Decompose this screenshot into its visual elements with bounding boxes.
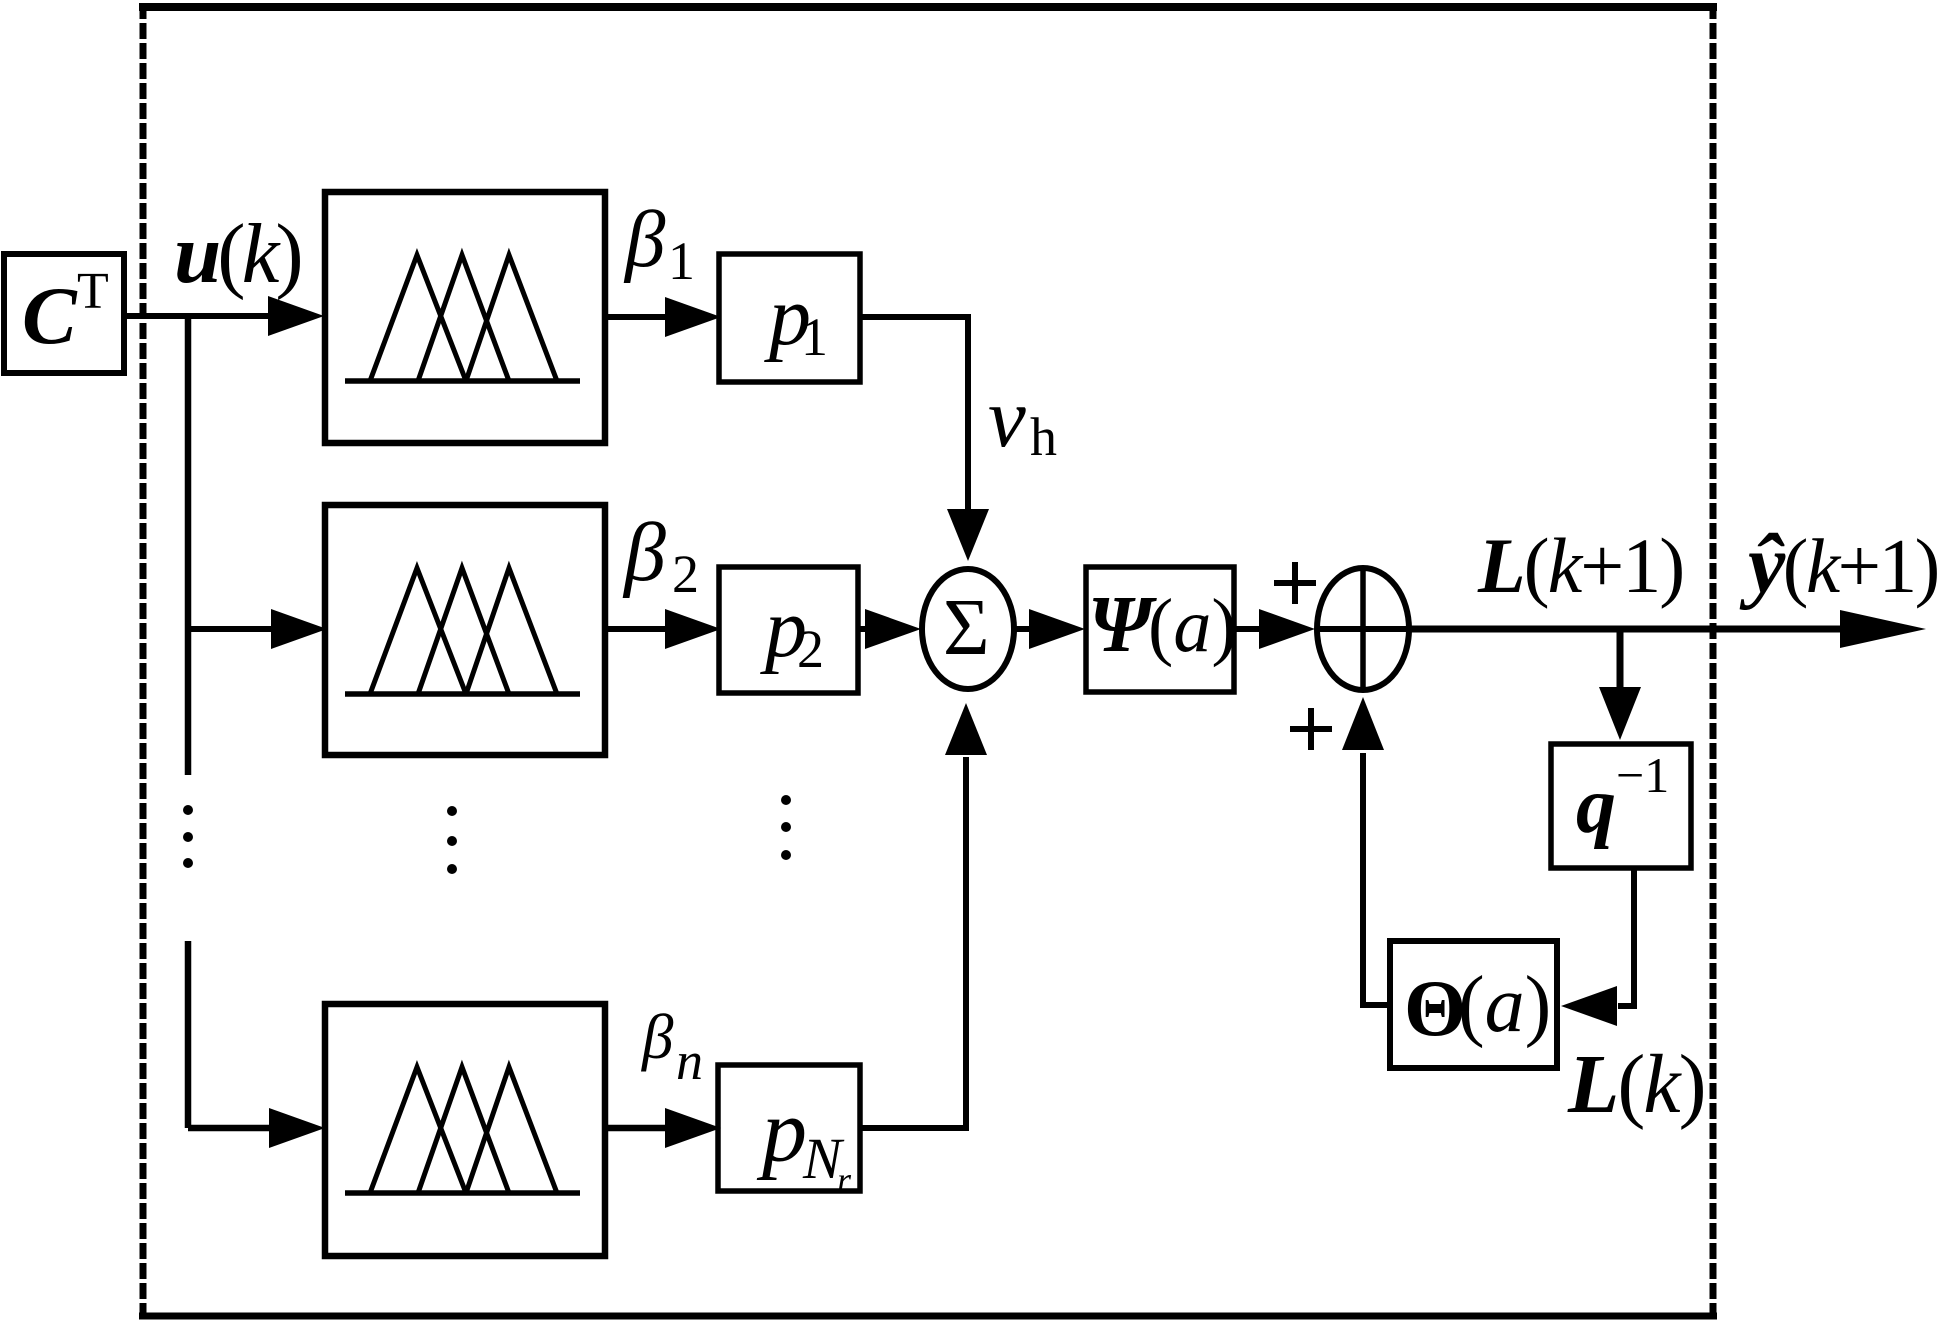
adder circle with cross <box>1316 566 1410 692</box>
svg-text:2: 2 <box>672 544 699 604</box>
wire fuzzifier3 to pNr <box>605 1125 668 1132</box>
wire u(k) branch vertical upper <box>185 316 192 775</box>
wire row2 branch to fuzzifier2 <box>188 626 274 632</box>
svg-text:(a): (a) <box>1148 584 1237 668</box>
node vertical ellipsis right <box>781 795 791 805</box>
svg-text:ŷ(k+1): ŷ(k+1) <box>1739 518 1938 611</box>
svg-text:1: 1 <box>668 231 695 291</box>
block Theta(a) <box>1390 941 1557 1068</box>
fuzzifier block 3 <box>325 1004 605 1256</box>
wire row3 branch to fuzzifier3 <box>188 1125 272 1132</box>
wire fuzzifier2 to p2 <box>605 626 668 632</box>
svg-text:L(k): L(k) <box>1567 1038 1705 1131</box>
svg-text:p: p <box>756 1082 807 1181</box>
node vertical ellipsis middle <box>447 806 457 816</box>
wire Theta to adder bottom <box>1363 753 1390 1005</box>
dashed frame right border <box>1710 3 1717 1320</box>
svg-text:q: q <box>1576 762 1616 850</box>
wire fuzzifier1 to p1 <box>605 314 668 320</box>
svg-text:n: n <box>676 1031 703 1091</box>
svg-text:h: h <box>1030 407 1057 467</box>
wire adder to output <box>1409 626 1843 633</box>
svg-text:1: 1 <box>801 307 828 367</box>
svg-text:Ψ: Ψ <box>1088 581 1157 669</box>
svg-text:u(k): u(k) <box>174 207 300 301</box>
dashed frame top border <box>139 3 1717 11</box>
wire p1 to sum (v_h) <box>860 317 968 512</box>
wire pNr up to sum bottom <box>860 757 966 1128</box>
node plus sign lower <box>1290 708 1332 750</box>
fuzzifier block 2 <box>325 505 605 755</box>
dashed frame bottom border <box>139 1313 1717 1320</box>
svg-text:Θ: Θ <box>1404 965 1466 1053</box>
summation node Sigma <box>922 569 1014 689</box>
wire sum to Psi <box>1014 626 1032 632</box>
block pNr <box>718 1065 860 1191</box>
svg-text:−1: −1 <box>1616 747 1669 803</box>
block p1 <box>719 254 860 382</box>
wire u(k) branch vertical lower <box>185 941 192 1128</box>
wire p2 to sum <box>858 626 868 632</box>
svg-text:β: β <box>623 194 666 284</box>
svg-text:2: 2 <box>797 619 824 679</box>
block Psi(a) <box>1086 567 1234 692</box>
node vertical ellipsis left <box>183 805 193 815</box>
wire C^T to fuzzifier 1 <box>124 313 270 319</box>
dashed frame left border <box>140 3 147 1320</box>
svg-text:C: C <box>22 270 78 361</box>
block q^-1 <box>1551 744 1691 868</box>
svg-text:r: r <box>837 1160 852 1200</box>
svg-text:(a): (a) <box>1458 961 1551 1049</box>
wire branch down to q^-1 <box>1617 629 1624 688</box>
block C^T <box>4 254 124 373</box>
svg-text:v: v <box>988 371 1026 465</box>
wire q^-1 to Theta <box>1618 868 1634 1006</box>
svg-text:Σ: Σ <box>943 584 990 672</box>
block p2 <box>719 567 858 693</box>
svg-text:L(k+1): L(k+1) <box>1477 522 1683 609</box>
svg-text:T: T <box>77 263 109 320</box>
svg-text:β: β <box>622 506 666 599</box>
fuzzifier block 1 <box>325 192 605 443</box>
wire Psi to adder <box>1234 626 1262 632</box>
node plus sign upper <box>1274 562 1316 604</box>
svg-text:β: β <box>640 1002 674 1072</box>
